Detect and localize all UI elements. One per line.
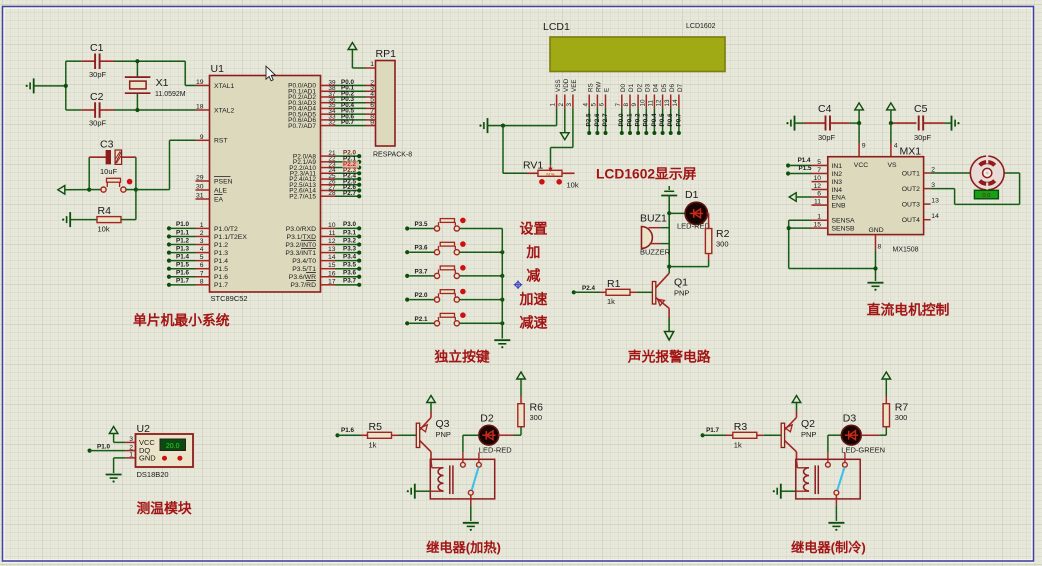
U2 state dot 2 xyxy=(177,456,182,461)
motor speed display xyxy=(974,190,998,199)
svg-text:P3.5: P3.5 xyxy=(343,262,356,269)
wire net P2.0 xyxy=(335,155,359,157)
svg-text:31: 31 xyxy=(196,193,204,200)
U1 pin 28 P2.7 xyxy=(321,195,336,197)
svg-text:P1.3: P1.3 xyxy=(214,250,228,257)
led D1 LED-RED xyxy=(669,212,685,214)
svg-text:P3.0: P3.0 xyxy=(343,221,356,228)
relay contact bottom xyxy=(834,490,839,495)
RP1 pin 3 xyxy=(366,90,376,92)
svg-text:P3.7: P3.7 xyxy=(415,268,428,275)
U2 state dot 1 xyxy=(162,456,167,461)
svg-text:OUT4: OUT4 xyxy=(902,217,920,224)
U1 pin 3 P1.2 xyxy=(196,244,210,246)
wire arrow to junction xyxy=(65,189,89,191)
node P2.4 xyxy=(357,177,361,181)
node P1.7 xyxy=(701,433,705,437)
wire LCD D2 net P0.2 xyxy=(637,108,639,133)
RV1 state dot right xyxy=(556,179,562,185)
node P3.6 xyxy=(357,275,361,279)
capacitor C1 xyxy=(81,60,95,62)
svg-text:VS: VS xyxy=(888,162,898,169)
svg-text:P1.0/T2: P1.0/T2 xyxy=(214,226,238,233)
mouse cursor xyxy=(266,66,275,81)
wire GND to ground xyxy=(875,250,877,281)
svg-text:18: 18 xyxy=(196,104,204,111)
svg-text:51%: 51% xyxy=(546,172,555,177)
svg-text:GND: GND xyxy=(139,453,156,462)
wire P1.4 to IN1 xyxy=(788,165,811,167)
wire OUT1 to motor xyxy=(931,172,971,174)
power arrow down VDD xyxy=(561,133,570,140)
wire D2 to R6 xyxy=(498,434,514,436)
node junction SENSB xyxy=(787,226,791,230)
relay coil xyxy=(430,459,433,468)
svg-text:P3.3: P3.3 xyxy=(343,245,356,252)
svg-text:LCD1602: LCD1602 xyxy=(686,23,716,30)
U1 pin 6 P1.5 xyxy=(196,268,210,270)
U1 pin 29 PSEN xyxy=(196,180,210,182)
RP1 pin 4 xyxy=(366,96,376,98)
svg-text:IN2: IN2 xyxy=(832,171,843,178)
MX1 pin 6 ENA xyxy=(812,196,828,198)
svg-text:ENB: ENB xyxy=(832,203,846,210)
svg-text:PNP: PNP xyxy=(801,430,816,439)
svg-text:12: 12 xyxy=(656,99,663,107)
wire LCD RW net P2.6 xyxy=(596,108,598,133)
svg-text:P2.0: P2.0 xyxy=(415,292,428,299)
transistor Q2 PNP xyxy=(781,423,784,447)
svg-text:U2: U2 xyxy=(137,423,151,435)
svg-text:ALE: ALE xyxy=(214,187,227,194)
svg-text:1: 1 xyxy=(200,222,204,229)
svg-text:BUZZER: BUZZER xyxy=(640,248,671,257)
svg-text:D1: D1 xyxy=(628,83,635,92)
led D3 LED-GREEN xyxy=(841,425,861,445)
svg-text:独立按键: 独立按键 xyxy=(435,349,490,365)
node LCD RW xyxy=(595,131,599,135)
node junction button bus row 4 xyxy=(500,298,504,302)
relay switch blade xyxy=(837,467,844,490)
svg-text:C4: C4 xyxy=(818,103,832,115)
LCD pin 2 VDD xyxy=(564,72,566,95)
svg-text:15: 15 xyxy=(813,222,821,229)
wire P2.4 to R1 xyxy=(574,291,600,293)
power arrow reset xyxy=(58,186,65,195)
svg-text:VEE: VEE xyxy=(571,79,578,92)
power arrow ENA xyxy=(789,193,796,202)
U1 pin 25 P2.4 xyxy=(321,178,336,180)
wire LCD D6 net P0.6 xyxy=(670,108,672,133)
U1 pin 31 EA xyxy=(196,198,210,200)
svg-text:加速: 加速 xyxy=(519,291,548,307)
svg-text:MX1508: MX1508 xyxy=(893,247,919,254)
svg-text:P0.1: P0.1 xyxy=(626,113,633,126)
node P1.7 xyxy=(167,283,171,287)
transistor Q3 PNP xyxy=(416,423,419,447)
wire net P2.3 xyxy=(335,172,359,174)
wire contact to D2 xyxy=(462,435,464,452)
U1 pin 24 P2.3 xyxy=(321,172,336,174)
node P3.6 xyxy=(405,250,409,254)
svg-text:声光报警电路: 声光报警电路 xyxy=(627,349,711,365)
svg-text:STC89C52: STC89C52 xyxy=(211,294,248,303)
svg-text:减: 减 xyxy=(526,268,540,284)
potentiometer RV1 xyxy=(527,172,539,174)
svg-text:16: 16 xyxy=(328,270,336,277)
svg-text:R6: R6 xyxy=(530,402,544,414)
node junction alarm bottom xyxy=(667,265,671,269)
U1 pin 17 P3.7 xyxy=(321,284,336,286)
node P2.6 xyxy=(357,188,361,192)
wire net P1.0 xyxy=(169,227,196,229)
push button P3.6 xyxy=(409,251,434,253)
node LCD D3 xyxy=(644,131,648,135)
resistor R7 xyxy=(883,404,889,427)
svg-text:D0: D0 xyxy=(620,83,627,92)
relay box 继电器(加热) xyxy=(430,459,494,499)
wire net P3.5 xyxy=(335,268,359,270)
wire ground to junction xyxy=(34,85,66,87)
LCD pin 13 D6 xyxy=(670,72,672,95)
svg-text:0.0: 0.0 xyxy=(982,193,990,199)
svg-text:9: 9 xyxy=(370,119,374,126)
MX1 pin 3 OUT2 xyxy=(924,188,931,190)
U1 pin 16 P3.6 xyxy=(321,276,336,278)
U1 pin 35 P0.4 xyxy=(321,107,336,109)
svg-text:P3.4: P3.4 xyxy=(343,253,356,260)
svg-text:3: 3 xyxy=(129,436,133,443)
svg-text:17: 17 xyxy=(328,278,336,285)
svg-text:P3.1: P3.1 xyxy=(343,229,356,236)
svg-text:P1.4: P1.4 xyxy=(798,157,811,164)
svg-text:C2: C2 xyxy=(90,91,104,103)
ground at relay coil xyxy=(414,484,416,499)
wire C3 left down xyxy=(88,157,90,189)
wire LCD D4 net P0.4 xyxy=(653,108,655,133)
svg-text:SENSA: SENSA xyxy=(832,218,856,225)
node P2.4 xyxy=(572,290,576,294)
wire bottom contact to ground xyxy=(835,495,837,505)
svg-text:2: 2 xyxy=(200,230,204,237)
node P1.6 xyxy=(167,275,171,279)
svg-text:P2.1: P2.1 xyxy=(415,316,428,323)
svg-text:P1.2: P1.2 xyxy=(214,242,228,249)
node P1.5 xyxy=(167,267,171,271)
svg-text:4: 4 xyxy=(582,103,589,107)
svg-text:MX1: MX1 xyxy=(900,146,922,158)
svg-text:LCD1: LCD1 xyxy=(543,21,570,33)
ground at C5 xyxy=(951,116,953,131)
svg-text:3: 3 xyxy=(566,103,573,107)
U1 pin 30 ALE xyxy=(196,189,210,191)
wire C3 right down xyxy=(135,157,137,189)
wire net P2.5 xyxy=(335,184,359,186)
svg-text:6: 6 xyxy=(817,191,821,198)
svg-text:29: 29 xyxy=(196,175,204,182)
svg-text:IN3: IN3 xyxy=(832,179,843,186)
push button P2.1 xyxy=(409,322,434,324)
svg-text:10k: 10k xyxy=(567,181,579,190)
relay contact right stub xyxy=(478,453,480,463)
node P2.5 xyxy=(357,183,361,187)
node junction crystal-ground xyxy=(64,84,68,88)
svg-text:P1.7: P1.7 xyxy=(706,427,719,434)
svg-text:E: E xyxy=(604,88,611,92)
svg-text:BUZ1: BUZ1 xyxy=(640,213,667,225)
U1 pin 34 P0.5 xyxy=(321,113,336,115)
blue origin marker xyxy=(514,284,522,286)
capacitor C4 xyxy=(795,122,805,124)
svg-text:2: 2 xyxy=(558,103,565,107)
node LCD D4 xyxy=(652,131,656,135)
svg-text:11.0592M: 11.0592M xyxy=(155,91,186,98)
wire net P2.1 xyxy=(335,161,359,163)
svg-text:P3.0/RXD: P3.0/RXD xyxy=(286,226,316,233)
svg-text:P3.1/TXD: P3.1/TXD xyxy=(287,234,317,241)
wire net P3.2 xyxy=(335,244,359,246)
power arrow Q2 xyxy=(792,396,801,403)
svg-text:VSS: VSS xyxy=(555,79,562,92)
svg-text:9: 9 xyxy=(862,143,866,150)
svg-text:RW: RW xyxy=(596,82,603,92)
svg-text:U1: U1 xyxy=(211,63,225,75)
svg-text:P2.6: P2.6 xyxy=(594,113,601,126)
svg-text:P2.7: P2.7 xyxy=(602,113,609,126)
svg-text:5: 5 xyxy=(817,159,821,166)
relay contact bottom xyxy=(468,490,473,495)
power rail symbol alarm xyxy=(668,186,670,190)
MX1 pin 14 OUT4 xyxy=(924,219,931,221)
node LCD RS xyxy=(587,131,591,135)
wire net P1.3 xyxy=(169,252,196,254)
U1 pin 14 P3.4 xyxy=(321,260,336,262)
resistor R2 xyxy=(705,229,711,254)
wire net P1.2 xyxy=(169,244,196,246)
svg-text:P3.6: P3.6 xyxy=(415,245,428,252)
MX1 pin 5 IN1 xyxy=(812,165,828,167)
push button P3.5 xyxy=(409,228,434,230)
U1 pin 26 P2.5 xyxy=(321,184,336,186)
svg-text:PSEN: PSEN xyxy=(214,178,233,185)
svg-text:LED-GREEN: LED-GREEN xyxy=(841,446,885,455)
svg-text:20.0: 20.0 xyxy=(166,443,180,450)
svg-text:300: 300 xyxy=(716,240,729,249)
svg-text:13: 13 xyxy=(931,198,939,205)
svg-text:单片机最小系统: 单片机最小系统 xyxy=(133,312,230,328)
MX1 pin 8 GND xyxy=(875,235,877,251)
lcd LCD1 screen body xyxy=(550,37,725,72)
svg-text:1k: 1k xyxy=(607,297,615,306)
node P3.1 xyxy=(357,234,361,238)
wire LCD E net P2.7 xyxy=(605,108,607,133)
svg-text:14: 14 xyxy=(328,254,336,261)
node P2.2 xyxy=(357,165,361,169)
motor MX xyxy=(970,156,1004,190)
U1 pin 18 XTAL2 xyxy=(196,109,210,111)
svg-text:11: 11 xyxy=(814,199,821,206)
svg-text:P0.5: P0.5 xyxy=(659,113,666,126)
wire net P1.5 xyxy=(169,268,196,270)
svg-text:P3.6: P3.6 xyxy=(343,270,356,277)
power arrow U2 VCC xyxy=(109,427,118,434)
node LCD D0 xyxy=(620,131,624,135)
buzzer BUZ1 xyxy=(642,227,653,249)
node junction alarm top xyxy=(667,211,671,215)
LCD pin 3 VEE xyxy=(572,72,574,95)
net label P2.2 xyxy=(343,161,360,167)
svg-text:P3.2/INT0: P3.2/INT0 xyxy=(285,242,316,249)
svg-text:1: 1 xyxy=(129,452,133,459)
svg-text:P3.2: P3.2 xyxy=(343,237,356,244)
ground below U2 xyxy=(106,474,122,476)
crystal X1 xyxy=(136,61,138,77)
ground below relay xyxy=(828,522,844,524)
button state dot P3.6 xyxy=(460,241,466,247)
svg-text:1: 1 xyxy=(817,214,821,221)
U1 pin 7 P1.6 xyxy=(196,276,210,278)
svg-text:P1.6: P1.6 xyxy=(176,270,189,277)
U1 pin 13 P3.3 xyxy=(321,252,336,254)
svg-text:X1: X1 xyxy=(156,77,169,89)
wire net P0.0 to RP1 xyxy=(335,85,366,87)
svg-text:P0.7: P0.7 xyxy=(675,113,682,126)
button state dot P2.1 xyxy=(460,312,466,318)
wire net P3.6 xyxy=(335,276,359,278)
RP1 pin 2 xyxy=(366,85,376,87)
svg-text:P3.6/WR: P3.6/WR xyxy=(289,274,316,281)
svg-text:IN4: IN4 xyxy=(832,187,843,194)
node P1.2 xyxy=(167,242,171,246)
wire crystal left vertical xyxy=(65,61,67,110)
svg-text:11: 11 xyxy=(648,99,655,106)
U1 pin 22 P2.1 xyxy=(321,161,336,163)
ground at relay coil xyxy=(780,484,782,499)
svg-text:9: 9 xyxy=(200,134,204,141)
wire R1 to Q1 base xyxy=(630,291,637,293)
svg-text:P3.5/T1: P3.5/T1 xyxy=(292,266,316,273)
svg-text:14: 14 xyxy=(672,99,679,107)
node P1.0 xyxy=(88,449,92,453)
svg-text:R4: R4 xyxy=(98,205,112,217)
svg-text:XTAL1: XTAL1 xyxy=(214,83,234,90)
U1 pin 8 P1.7 xyxy=(196,284,210,286)
svg-text:P0.7: P0.7 xyxy=(341,119,354,126)
transistor Q1 PNP xyxy=(652,282,655,305)
svg-text:8: 8 xyxy=(878,244,882,251)
push button P3.7 xyxy=(409,275,434,277)
U1 pin 36 P0.3 xyxy=(321,102,336,104)
svg-text:5: 5 xyxy=(591,103,598,107)
driver MX1 body MX1508 xyxy=(828,157,924,235)
svg-text:P1.4: P1.4 xyxy=(176,253,189,260)
U1 pin 2 P1.1 xyxy=(196,235,210,237)
svg-text:C3: C3 xyxy=(100,139,114,151)
wire OUT2 to motor xyxy=(931,188,955,190)
wire R7 to power xyxy=(885,396,887,404)
svg-text:11: 11 xyxy=(328,230,335,237)
power arrow VCC xyxy=(855,103,864,110)
power arrow R7 xyxy=(882,372,891,379)
node P3.2 xyxy=(357,242,361,246)
wire D1 to R2 xyxy=(707,212,709,214)
svg-text:继电器(加热): 继电器(加热) xyxy=(426,539,501,555)
svg-text:P1.1: P1.1 xyxy=(176,229,189,236)
U1 pin 21 P2.0 xyxy=(321,155,336,157)
svg-text:30: 30 xyxy=(196,184,204,191)
svg-text:15: 15 xyxy=(328,262,336,269)
ground arrow below Q1 xyxy=(665,332,674,341)
svg-text:6: 6 xyxy=(599,103,606,107)
ground at R4 xyxy=(69,212,71,227)
svg-text:6: 6 xyxy=(200,262,204,269)
wire R6 to power xyxy=(520,396,522,404)
wire net P2.6 xyxy=(335,189,359,191)
svg-text:D7: D7 xyxy=(677,83,684,92)
svg-text:OUT1: OUT1 xyxy=(902,170,920,177)
node LCD D7 xyxy=(677,131,681,135)
RP1 pin 7 xyxy=(366,113,376,115)
U1 pin 15 P3.5 xyxy=(321,268,336,270)
wire P1.6 to R5 xyxy=(338,434,368,436)
svg-text:P0.4: P0.4 xyxy=(651,113,658,126)
svg-text:13: 13 xyxy=(664,99,671,107)
RP1 pin 1 xyxy=(366,67,376,69)
wire net P0.7 to RP1 xyxy=(335,125,366,127)
resistor pack RP1 body xyxy=(376,61,396,147)
button state dot P3.5 xyxy=(460,218,466,224)
svg-text:1k: 1k xyxy=(369,441,377,450)
svg-text:R2: R2 xyxy=(716,228,730,240)
node P1.4 xyxy=(786,163,790,167)
relay contact left xyxy=(827,452,829,462)
wire net P3.1 xyxy=(335,235,359,237)
relay coil xyxy=(796,459,799,468)
svg-text:ENA: ENA xyxy=(832,194,846,201)
wire net P2.7 xyxy=(335,195,359,197)
node junction button bus row 2 xyxy=(500,250,504,254)
node junction button bus row 3 xyxy=(500,274,504,278)
svg-text:XTAL2: XTAL2 xyxy=(214,107,234,114)
U1 pin 37 P0.2 xyxy=(321,96,336,98)
power arrow R6 xyxy=(517,372,526,379)
power arrow VS xyxy=(887,103,896,110)
resistor R1 xyxy=(606,289,630,295)
U1 pin 11 P3.1 xyxy=(321,235,336,237)
LCD pin 4 RS xyxy=(588,72,590,95)
wire LCD D5 net P0.5 xyxy=(662,108,664,133)
U1 pin 12 P3.2 xyxy=(321,244,336,246)
svg-text:P2.7/A15: P2.7/A15 xyxy=(289,193,316,200)
RP1 pin 5 xyxy=(366,102,376,104)
svg-text:P3.7/RD: P3.7/RD xyxy=(290,282,316,289)
svg-text:R7: R7 xyxy=(895,402,909,414)
wire net P0.3 to RP1 xyxy=(335,102,366,104)
wire crystal top rail xyxy=(66,60,82,62)
wire net P0.1 to RP1 xyxy=(335,90,366,92)
svg-text:RV1: RV1 xyxy=(523,160,543,172)
wire P1.7 to R3 xyxy=(703,434,733,436)
MX1 pin 10 IN3 xyxy=(812,181,828,183)
node junction X1 top xyxy=(135,59,139,63)
svg-text:D2: D2 xyxy=(480,413,494,425)
svg-text:19: 19 xyxy=(196,79,204,86)
node LCD D5 xyxy=(661,131,665,135)
svg-text:P1.7: P1.7 xyxy=(176,278,189,285)
wire LCD D3 net P0.3 xyxy=(645,108,647,133)
wire VCC to MX1 xyxy=(858,123,860,143)
svg-text:D4: D4 xyxy=(653,83,660,92)
